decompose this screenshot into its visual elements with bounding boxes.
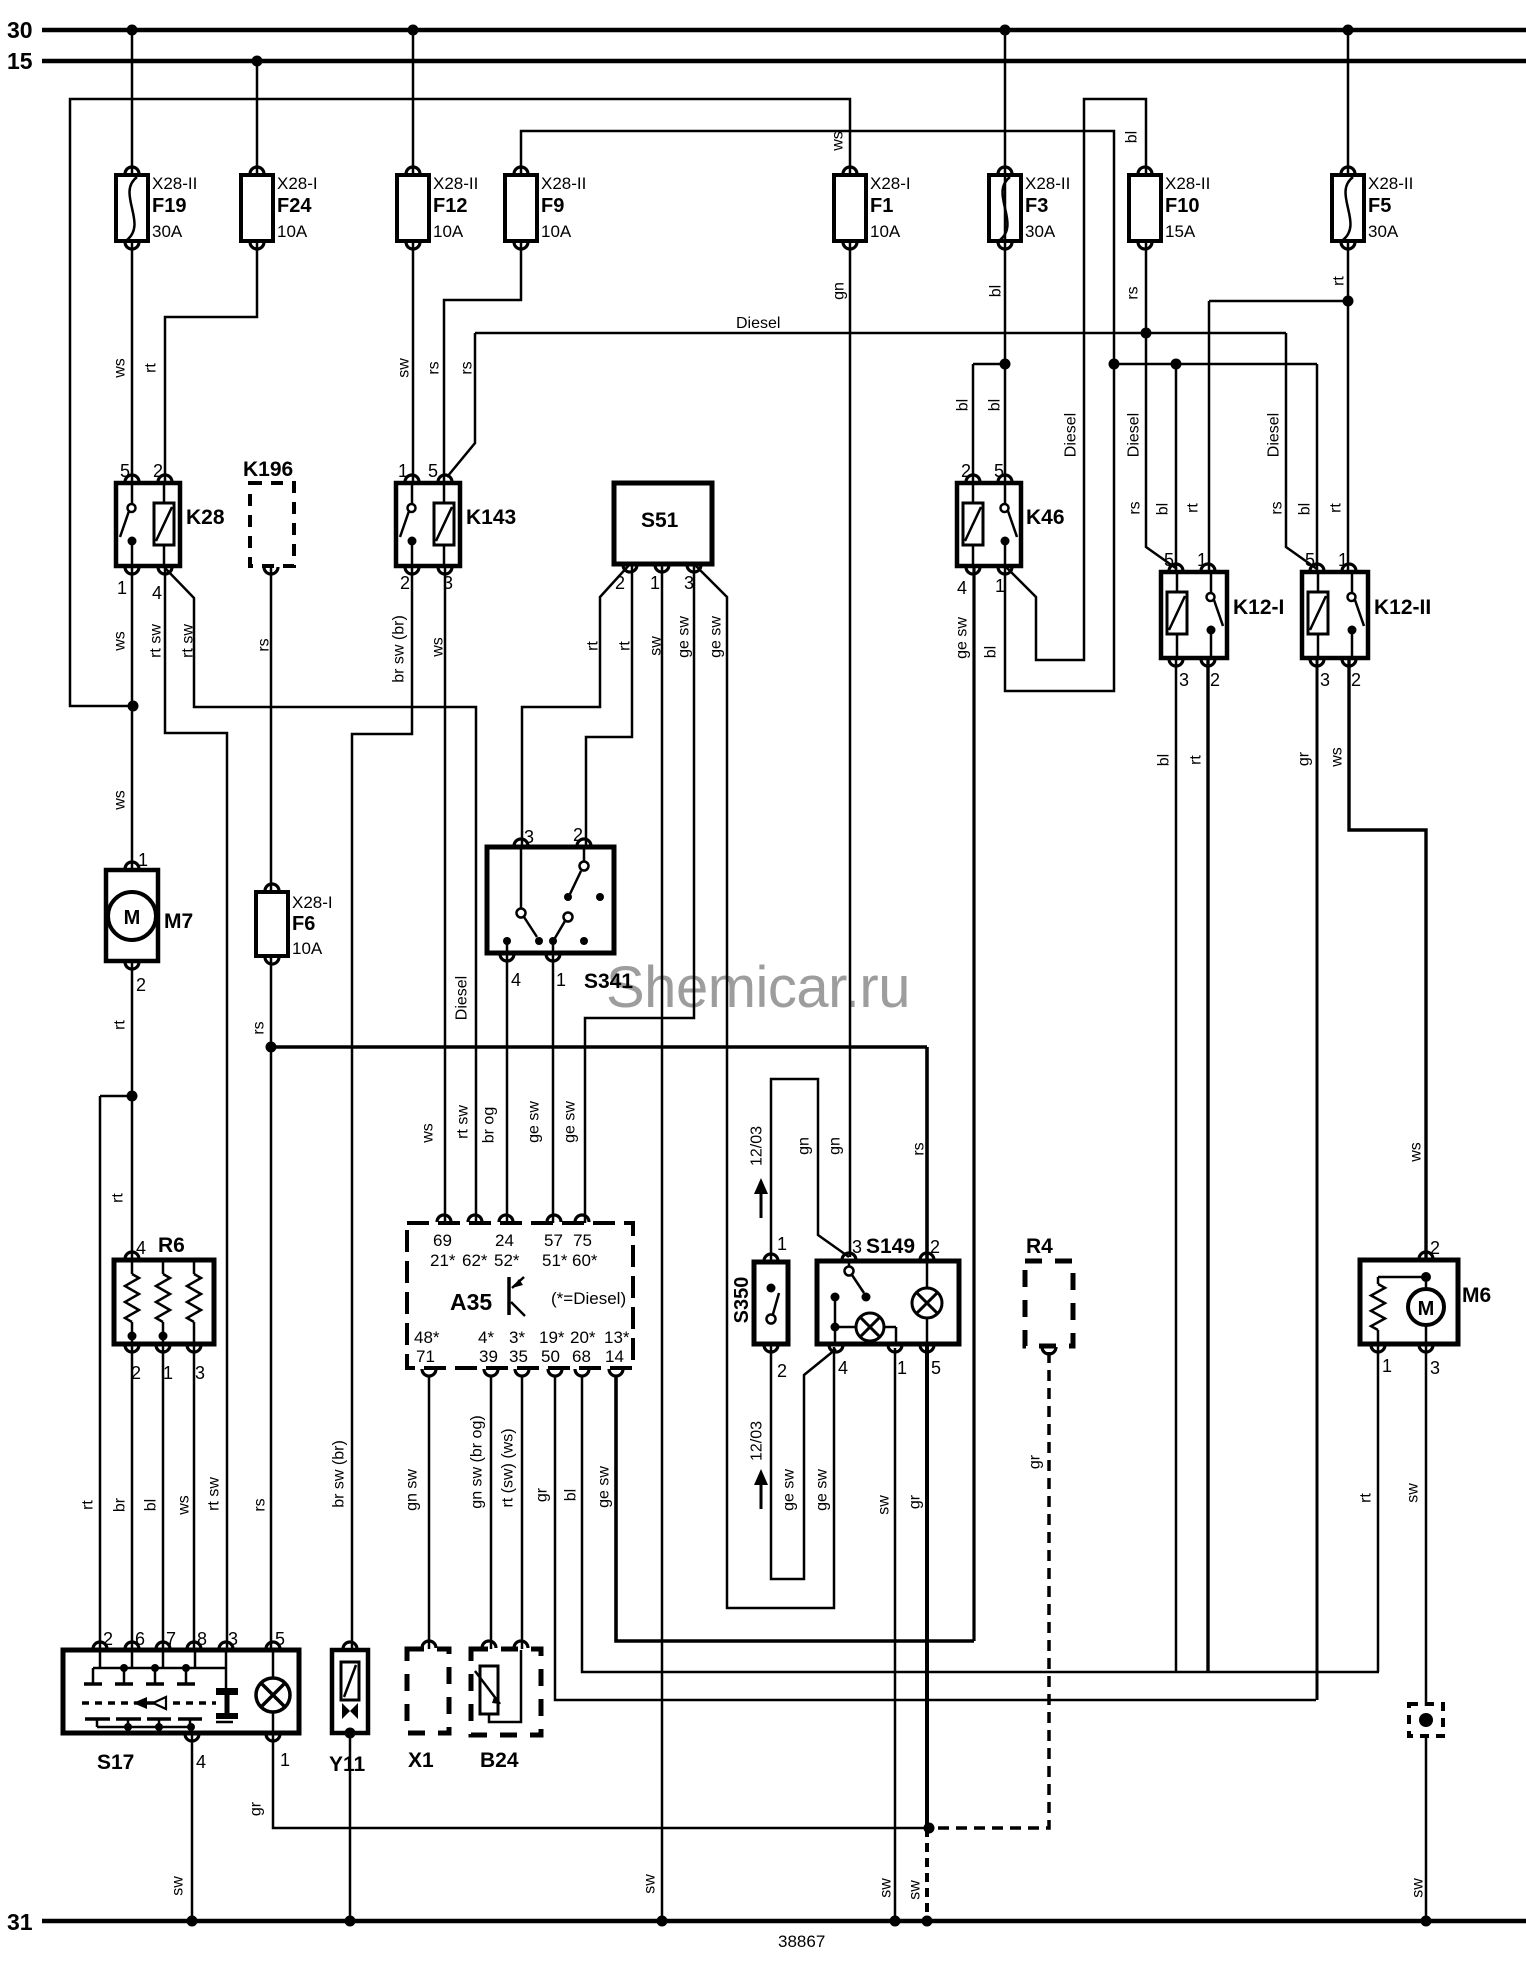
svg-text:Diesel: Diesel	[736, 315, 780, 332]
svg-text:sw: sw	[876, 1495, 893, 1515]
svg-text:75: 75	[573, 1231, 592, 1250]
svg-text:X28-II: X28-II	[1368, 174, 1413, 193]
svg-text:2: 2	[615, 573, 625, 593]
svg-text:4: 4	[957, 578, 967, 598]
svg-text:2: 2	[777, 1361, 787, 1381]
svg-text:bl: bl	[1156, 754, 1173, 766]
svg-text:ws: ws	[430, 637, 447, 658]
svg-text:2: 2	[1430, 1238, 1440, 1258]
svg-text:5: 5	[120, 461, 130, 481]
svg-text:20*: 20*	[570, 1328, 596, 1347]
svg-text:3: 3	[195, 1363, 205, 1383]
svg-text:gn sw: gn sw	[404, 1469, 421, 1511]
svg-text:rt: rt	[1358, 1493, 1375, 1503]
svg-text:10A: 10A	[277, 222, 308, 241]
svg-text:14: 14	[605, 1347, 624, 1366]
svg-text:ge sw: ge sw	[562, 1101, 579, 1143]
svg-text:br sw (br): br sw (br)	[331, 1440, 348, 1508]
svg-text:Diesel: Diesel	[454, 976, 471, 1020]
svg-text:rs: rs	[251, 1021, 268, 1034]
svg-text:5: 5	[994, 461, 1004, 481]
svg-text:rt sw: rt sw	[148, 624, 165, 658]
svg-text:ge sw: ge sw	[596, 1466, 613, 1508]
svg-text:69: 69	[433, 1231, 452, 1250]
svg-text:ge sw: ge sw	[708, 616, 725, 658]
svg-text:10A: 10A	[433, 222, 464, 241]
svg-text:X28-II: X28-II	[152, 174, 197, 193]
svg-text:68: 68	[572, 1347, 591, 1366]
svg-text:10A: 10A	[870, 222, 901, 241]
svg-text:2: 2	[400, 573, 410, 593]
svg-text:K46: K46	[1026, 506, 1065, 529]
svg-text:S341: S341	[584, 970, 633, 993]
svg-text:8: 8	[197, 1629, 207, 1649]
svg-text:1: 1	[117, 578, 127, 598]
svg-text:rs: rs	[426, 361, 443, 374]
svg-text:rt sw: rt sw	[206, 1477, 223, 1511]
svg-text:3: 3	[1320, 670, 1330, 690]
svg-text:rt: rt	[1185, 503, 1202, 513]
svg-text:X1: X1	[408, 1749, 434, 1772]
svg-text:4: 4	[196, 1752, 206, 1772]
svg-text:F1: F1	[870, 195, 893, 217]
svg-text:gr: gr	[248, 1801, 265, 1816]
svg-text:2: 2	[930, 1237, 940, 1257]
svg-text:5: 5	[275, 1629, 285, 1649]
svg-text:K143: K143	[466, 506, 516, 529]
svg-text:gn: gn	[827, 1137, 844, 1155]
svg-text:br og: br og	[481, 1107, 498, 1143]
svg-text:7: 7	[166, 1629, 176, 1649]
svg-text:rs: rs	[256, 638, 273, 651]
svg-text:R4: R4	[1026, 1235, 1053, 1258]
svg-text:3: 3	[684, 573, 694, 593]
svg-text:ws: ws	[830, 131, 847, 152]
svg-text:bl: bl	[955, 399, 972, 411]
svg-text:sw: sw	[878, 1878, 895, 1898]
svg-text:3: 3	[443, 573, 453, 593]
svg-text:bl: bl	[983, 646, 1000, 658]
svg-text:rt: rt	[80, 1500, 97, 1510]
svg-text:5: 5	[931, 1358, 941, 1378]
svg-text:1: 1	[138, 850, 148, 870]
svg-text:F6: F6	[292, 913, 315, 935]
svg-text:71: 71	[416, 1347, 435, 1366]
svg-text:57: 57	[544, 1231, 563, 1250]
svg-text:K28: K28	[186, 506, 225, 529]
svg-text:K12-I: K12-I	[1233, 596, 1284, 619]
svg-text:K196: K196	[243, 458, 293, 481]
svg-text:5: 5	[1164, 550, 1174, 570]
svg-text:10A: 10A	[292, 939, 323, 958]
svg-text:X28-I: X28-I	[292, 893, 333, 912]
svg-text:ge sw: ge sw	[676, 616, 693, 658]
svg-text:bl: bl	[987, 399, 1004, 411]
svg-text:rs: rs	[252, 1498, 269, 1511]
svg-text:3: 3	[1430, 1358, 1440, 1378]
svg-text:F12: F12	[433, 195, 467, 217]
svg-text:12/03: 12/03	[749, 1421, 766, 1461]
svg-text:ws: ws	[420, 1123, 437, 1144]
svg-text:2: 2	[1351, 670, 1361, 690]
svg-text:rs: rs	[1127, 501, 1144, 514]
svg-text:bl: bl	[1124, 131, 1141, 143]
svg-text:gr: gr	[1296, 751, 1313, 766]
svg-text:rt: rt	[585, 641, 602, 651]
svg-text:S17: S17	[97, 1751, 134, 1774]
svg-text:R6: R6	[158, 1234, 185, 1257]
svg-text:1: 1	[163, 1363, 173, 1383]
svg-text:ge sw: ge sw	[526, 1101, 543, 1143]
svg-text:35: 35	[509, 1347, 528, 1366]
svg-text:ws: ws	[112, 790, 129, 811]
svg-text:60*: 60*	[572, 1251, 598, 1270]
svg-text:2: 2	[136, 975, 146, 995]
svg-text:19*: 19*	[539, 1328, 565, 1347]
svg-text:F19: F19	[152, 195, 186, 217]
svg-text:bl: bl	[988, 285, 1005, 297]
svg-text:A35: A35	[450, 1289, 492, 1315]
svg-text:F3: F3	[1025, 195, 1048, 217]
svg-text:6: 6	[135, 1629, 145, 1649]
svg-text:13*: 13*	[604, 1328, 630, 1347]
svg-text:15: 15	[7, 48, 33, 74]
svg-text:1: 1	[1197, 550, 1207, 570]
svg-text:3: 3	[1179, 670, 1189, 690]
svg-text:3: 3	[524, 827, 534, 847]
svg-text:bl: bl	[563, 1489, 580, 1501]
svg-text:rt: rt	[110, 1193, 127, 1203]
svg-text:F9: F9	[541, 195, 564, 217]
svg-text:10A: 10A	[541, 222, 572, 241]
svg-text:30: 30	[7, 17, 33, 43]
svg-text:Y11: Y11	[329, 1753, 366, 1776]
svg-text:rs: rs	[1269, 501, 1286, 514]
svg-text:21*: 21*	[430, 1251, 456, 1270]
svg-text:30A: 30A	[1368, 222, 1399, 241]
svg-text:bl: bl	[1155, 503, 1172, 515]
svg-text:ws: ws	[176, 1495, 193, 1516]
svg-text:(*=Diesel): (*=Diesel)	[551, 1289, 626, 1308]
svg-text:sw: sw	[396, 358, 413, 378]
svg-text:30A: 30A	[1025, 222, 1056, 241]
svg-text:ge sw: ge sw	[781, 1469, 798, 1511]
svg-text:rt (sw) (ws): rt (sw) (ws)	[500, 1428, 517, 1507]
svg-text:39: 39	[479, 1347, 498, 1366]
svg-text:Shemicar.ru: Shemicar.ru	[606, 955, 910, 1020]
svg-text:K12-II: K12-II	[1374, 596, 1431, 619]
svg-text:M: M	[124, 907, 141, 929]
svg-text:X28-II: X28-II	[1025, 174, 1070, 193]
svg-text:48*: 48*	[414, 1328, 440, 1347]
svg-text:2: 2	[153, 461, 163, 481]
svg-text:rt: rt	[1331, 276, 1348, 286]
svg-text:Diesel: Diesel	[1063, 413, 1080, 457]
svg-text:gr: gr	[1027, 1454, 1044, 1469]
svg-text:B24: B24	[480, 1749, 519, 1772]
svg-text:ge sw: ge sw	[814, 1469, 831, 1511]
svg-text:1: 1	[398, 461, 408, 481]
svg-text:sw: sw	[1405, 1483, 1422, 1503]
svg-text:bl: bl	[1297, 503, 1314, 515]
svg-text:rt sw: rt sw	[455, 1105, 472, 1139]
svg-text:S149: S149	[866, 1235, 915, 1258]
svg-text:Diesel: Diesel	[1266, 413, 1283, 457]
svg-text:1: 1	[777, 1234, 787, 1254]
svg-text:3: 3	[852, 1237, 862, 1257]
svg-text:ws: ws	[1329, 747, 1346, 768]
svg-text:rs: rs	[911, 1142, 928, 1155]
svg-text:ge sw: ge sw	[954, 617, 971, 659]
svg-text:F10: F10	[1165, 195, 1199, 217]
svg-text:4: 4	[136, 1238, 146, 1258]
svg-text:Diesel: Diesel	[1126, 413, 1143, 457]
svg-text:4: 4	[838, 1358, 848, 1378]
svg-text:2: 2	[1210, 670, 1220, 690]
svg-text:M7: M7	[164, 910, 193, 933]
svg-text:M: M	[1418, 1298, 1435, 1320]
svg-text:S350: S350	[731, 1277, 753, 1324]
svg-text:F24: F24	[277, 195, 312, 217]
svg-text:rt: rt	[112, 1020, 129, 1030]
svg-text:5: 5	[1305, 550, 1315, 570]
svg-text:br sw (br): br sw (br)	[391, 615, 408, 683]
svg-text:50: 50	[541, 1347, 560, 1366]
svg-text:M6: M6	[1462, 1284, 1491, 1307]
svg-text:1: 1	[280, 1750, 290, 1770]
svg-text:sw: sw	[1410, 1878, 1427, 1898]
svg-text:38867: 38867	[778, 1932, 825, 1951]
svg-text:2: 2	[131, 1363, 141, 1383]
svg-text:rs: rs	[1125, 286, 1142, 299]
svg-text:rt: rt	[143, 363, 160, 373]
svg-text:30A: 30A	[152, 222, 183, 241]
svg-text:rt: rt	[1188, 755, 1205, 765]
svg-text:31: 31	[7, 1909, 33, 1935]
svg-text:1: 1	[995, 576, 1005, 596]
svg-text:51*: 51*	[542, 1251, 568, 1270]
svg-text:F5: F5	[1368, 195, 1391, 217]
svg-text:2: 2	[103, 1629, 113, 1649]
svg-text:4*: 4*	[478, 1328, 494, 1347]
svg-text:3: 3	[228, 1629, 238, 1649]
svg-text:gr: gr	[907, 1494, 924, 1509]
svg-text:4: 4	[152, 583, 162, 603]
svg-text:ws: ws	[112, 358, 129, 379]
svg-text:2: 2	[573, 825, 583, 845]
svg-text:X28-II: X28-II	[433, 174, 478, 193]
svg-text:5: 5	[428, 461, 438, 481]
svg-text:1: 1	[897, 1358, 907, 1378]
svg-text:rt: rt	[1328, 503, 1345, 513]
svg-text:3*: 3*	[509, 1328, 525, 1347]
svg-text:sw: sw	[170, 1876, 187, 1896]
svg-text:2: 2	[961, 461, 971, 481]
svg-text:ws: ws	[1408, 1142, 1425, 1163]
svg-text:62*: 62*	[462, 1251, 488, 1270]
svg-text:gn: gn	[831, 282, 848, 300]
svg-text:gn sw (br og): gn sw (br og)	[469, 1415, 486, 1508]
svg-text:X28-I: X28-I	[870, 174, 911, 193]
svg-text:rt sw: rt sw	[180, 624, 197, 658]
svg-text:sw: sw	[642, 1874, 659, 1894]
svg-text:1: 1	[1382, 1356, 1392, 1376]
svg-text:S51: S51	[641, 509, 679, 532]
svg-text:rt: rt	[617, 641, 634, 651]
svg-text:1: 1	[650, 573, 660, 593]
svg-text:rs: rs	[459, 361, 476, 374]
svg-text:sw: sw	[648, 636, 665, 656]
svg-text:bl: bl	[143, 1499, 160, 1511]
svg-text:br: br	[112, 1497, 129, 1512]
svg-text:gr: gr	[534, 1487, 551, 1502]
svg-text:52*: 52*	[494, 1251, 520, 1270]
svg-text:gn: gn	[796, 1137, 813, 1155]
svg-text:4: 4	[511, 970, 521, 990]
svg-text:15A: 15A	[1165, 222, 1196, 241]
svg-text:sw: sw	[907, 1880, 924, 1900]
svg-text:ws: ws	[112, 631, 129, 652]
svg-text:X28-II: X28-II	[1165, 174, 1210, 193]
svg-text:24: 24	[495, 1231, 514, 1250]
svg-text:1: 1	[556, 970, 566, 990]
svg-text:X28-II: X28-II	[541, 174, 586, 193]
svg-text:1: 1	[1338, 550, 1348, 570]
svg-text:12/03: 12/03	[749, 1126, 766, 1166]
svg-text:X28-I: X28-I	[277, 174, 318, 193]
